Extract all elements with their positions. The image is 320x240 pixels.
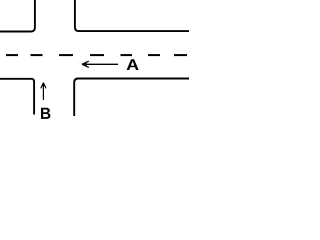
label A [127, 59, 139, 70]
arrow A (points left along main road) [82, 61, 118, 67]
road edge bottom-left (kerb with corner into bottom side road) [0, 79, 34, 115]
arrow B (points up into bottom side road) [41, 83, 46, 100]
road edge bottom-right (kerb with corner into bottom side road) [74, 79, 189, 117]
label B [41, 108, 50, 119]
dashed centre line of main road [6, 54, 187, 56]
road edge top-right (kerb with corner into top side road) [75, 0, 189, 31]
road edge top-left (kerb with corner into top side road) [0, 0, 35, 32]
